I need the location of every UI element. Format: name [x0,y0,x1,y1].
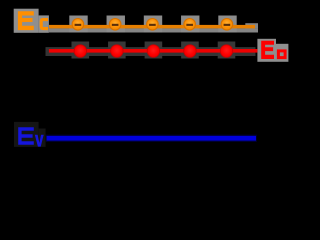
donor atom 4 (filled red disc on ED) [184,45,196,57]
label box ED (subscript cell) [276,44,288,62]
donor cell box 4 [181,42,199,59]
donor cell box 1 [72,42,90,59]
label box Ev (very faint backing, main cell) [14,122,39,147]
end dash cell box on Ec line [245,23,258,28]
electron 5 (circled minus on Ec) [221,19,233,31]
label ED text [261,41,285,59]
donor atom 3 (filled red disc on ED) [147,45,159,57]
donor atom 5 (filled red disc on ED) [220,45,232,57]
electron 4 (circled minus on Ec) [184,19,196,31]
label box ED (main cell) [257,39,276,62]
label box Ec (semi-transparent backing, main cell) [14,9,39,33]
donor cell box 2 [108,42,126,59]
donor cell box 3 [145,42,163,59]
donor cell box 5 [218,42,236,59]
donor atom 1 (filled red disc on ED) [74,45,86,57]
label box Ec (subscript cell) [39,15,49,32]
conduction band underline band (glyph-cell strip below Ec line) [49,28,258,32]
electron cell box 1 [69,16,87,33]
electron 3 (circled minus on Ec) [147,19,159,31]
donor level band (dark backing strip) [46,47,256,56]
electron cell box 5 [218,16,236,33]
label Ec text [18,11,48,30]
electron cell box 4 [181,16,199,33]
electron 1 (circled minus on Ec) [72,19,84,31]
valence band line Ev [47,136,256,141]
label box Ev (subscript cell) [39,129,46,147]
label Ev text [18,127,44,146]
electron 2 (circled minus on Ec) [109,19,121,31]
valence band line Ev glow [46,135,257,142]
donor level line ED [49,49,258,53]
conduction band line Ec [49,25,255,29]
electron cell box 3 [144,16,162,33]
donor atom 2 (filled red disc on ED) [111,45,123,57]
electron cell box 2 [107,16,125,33]
